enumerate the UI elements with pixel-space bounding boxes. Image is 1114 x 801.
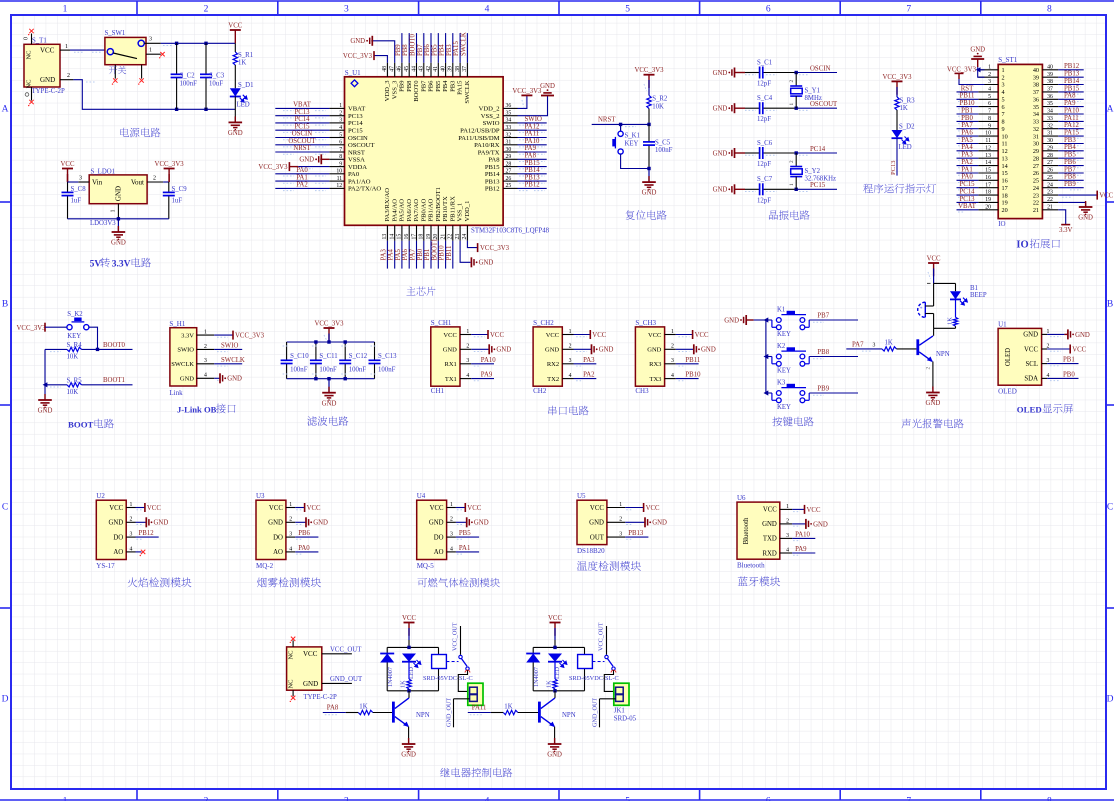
svg-text:4: 4 — [786, 547, 789, 553]
power VCC_3V3 at U1 VDDA pin 9 — [258, 162, 329, 171]
svg-text:4: 4 — [569, 373, 572, 379]
svg-text:J-Link OB: J-Link OB — [177, 404, 217, 414]
svg-text:S_Y2: S_Y2 — [805, 168, 821, 175]
svg-text:PA6/AO: PA6/AO — [406, 199, 413, 222]
svg-text:PB7: PB7 — [417, 44, 424, 56]
svg-text:NPN: NPN — [936, 351, 950, 358]
svg-text:PA4: PA4 — [961, 144, 973, 151]
ground GND at ST1 pins 1-2 — [970, 46, 985, 77]
svg-text:3: 3 — [339, 118, 342, 124]
capacitor S_C3 10uF — [200, 43, 225, 109]
svg-text:CH1: CH1 — [431, 387, 445, 395]
svg-text:PA1: PA1 — [296, 174, 307, 181]
svg-text:29: 29 — [1047, 145, 1053, 151]
svg-text:S_C9: S_C9 — [172, 186, 188, 193]
wire and net label PA0 at U1 pin 10 — [275, 167, 329, 176]
svg-text:27: 27 — [1033, 163, 1039, 170]
module U6 Bluetooth — [737, 494, 792, 569]
ground GND relay driver 1 — [401, 738, 416, 759]
svg-text:4: 4 — [485, 5, 490, 15]
svg-text:VBAT: VBAT — [293, 102, 312, 109]
svg-text:SDA: SDA — [1024, 376, 1038, 383]
svg-text:PB12: PB12 — [1064, 63, 1080, 70]
ground GND at U1 VSS_1 pin 23 — [460, 241, 493, 267]
svg-text:U1: U1 — [998, 320, 1007, 328]
svg-text:NC: NC — [26, 50, 33, 59]
svg-text:2: 2 — [786, 518, 789, 524]
svg-text:40: 40 — [1047, 64, 1053, 70]
wire and net label PC14 at ST1 pin 18 — [957, 189, 979, 198]
ground GND at CH1 pin 2 — [471, 344, 511, 354]
capacitor S_C13 100nF — [369, 342, 398, 379]
junction relay VCC node 2 — [553, 646, 556, 649]
svg-text:LED: LED — [237, 101, 250, 108]
relay contact 2 — [592, 622, 615, 691]
svg-text:GND: GND — [926, 400, 941, 407]
svg-text:S_CH1: S_CH1 — [431, 319, 452, 327]
svg-text:PB9: PB9 — [1064, 181, 1076, 188]
display U1 OLED — [998, 320, 1049, 395]
wire and net label BOOT0 at U1 pin 44 — [410, 33, 417, 63]
wire and net label PB0 at U1 pin 18 — [417, 241, 424, 269]
svg-text:35: 35 — [1047, 101, 1053, 107]
power port VCC_3V3 filter — [314, 321, 344, 343]
svg-text:KEY: KEY — [777, 368, 791, 375]
svg-text:GND: GND — [599, 347, 614, 354]
wire and net label PA3 at ST1 pin 13 — [957, 152, 979, 161]
svg-text:VCC: VCC — [109, 505, 123, 512]
svg-text:PA0: PA0 — [348, 171, 360, 178]
svg-text:S_T1: S_T1 — [32, 38, 47, 45]
svg-text:2: 2 — [204, 344, 207, 350]
ground GND LDO — [111, 219, 126, 247]
wire and net label PA7 base — [846, 341, 882, 351]
svg-text:1K: 1K — [359, 703, 367, 710]
wire and net label PB11 at CH3 pin 3 — [676, 357, 700, 366]
svg-text:1: 1 — [450, 502, 453, 508]
svg-text:3: 3 — [671, 358, 674, 364]
svg-text:GND: GND — [313, 520, 328, 527]
svg-text:SWCLK: SWCLK — [464, 80, 471, 103]
svg-text:GND: GND — [180, 376, 194, 383]
svg-text:25: 25 — [506, 183, 512, 189]
svg-text:PA9: PA9 — [1064, 100, 1076, 107]
svg-text:VCC: VCC — [228, 23, 242, 30]
ground GND at U1 VSSA pin 8 — [299, 154, 329, 164]
svg-text:28: 28 — [506, 161, 512, 167]
capacitor S_C6 12pF — [745, 140, 796, 168]
svg-text:VCC: VCC — [269, 505, 283, 512]
capacitor S_C1 12pF — [745, 59, 796, 87]
svg-text:S_R5: S_R5 — [67, 377, 83, 384]
svg-text:PA11: PA11 — [525, 131, 540, 138]
svg-text:1: 1 — [619, 502, 622, 508]
svg-text:VCC: VCC — [40, 47, 55, 55]
ground GND reset — [642, 169, 657, 197]
svg-text:1: 1 — [63, 797, 68, 801]
svg-text:PB7: PB7 — [420, 80, 427, 92]
svg-text:PB13: PB13 — [485, 178, 500, 185]
junction relay collector node 2 — [553, 689, 556, 692]
power VCC at U6 pin 1 — [792, 505, 821, 514]
wire relay coil loop 2 — [533, 647, 584, 690]
wire and net label PB8 at U1 pin 45 — [402, 33, 409, 63]
svg-text:40: 40 — [440, 66, 446, 72]
svg-text:PB8: PB8 — [402, 44, 409, 56]
svg-text:5: 5 — [988, 94, 991, 100]
connector S_CH2 serial port — [533, 319, 573, 395]
svg-text:GND: GND — [401, 752, 416, 759]
svg-text:1: 1 — [789, 103, 795, 106]
wire and net label PB9 at ST1 pin 24 — [1058, 181, 1083, 190]
svg-text:28: 28 — [1033, 155, 1039, 162]
svg-text:7: 7 — [988, 109, 991, 115]
svg-text:PA10: PA10 — [525, 138, 540, 145]
svg-text:VCC: VCC — [646, 505, 660, 512]
wire and net label PA15 at ST1 pin 31 — [1058, 130, 1083, 139]
svg-text:PA1: PA1 — [961, 166, 972, 173]
svg-text:12pF: 12pF — [757, 81, 771, 88]
svg-text:PB10: PB10 — [685, 372, 701, 379]
svg-text:PB1: PB1 — [1063, 357, 1075, 364]
svg-text:3: 3 — [619, 532, 622, 538]
svg-text:NC: NC — [288, 650, 295, 659]
junction keys bus K2 — [764, 354, 769, 359]
svg-text:47: 47 — [390, 66, 396, 72]
ground GND at U1 VSS_2 pin 35 — [518, 83, 555, 116]
svg-text:OSCIN: OSCIN — [292, 131, 312, 138]
svg-text:PB13: PB13 — [1064, 71, 1080, 78]
svg-text:VCC_3V3: VCC_3V3 — [258, 164, 288, 171]
junction filter bottom bus x=345 — [344, 377, 347, 380]
svg-text:GND: GND — [443, 347, 457, 354]
svg-text:VSS_3: VSS_3 — [391, 80, 398, 99]
svg-text:3: 3 — [988, 79, 991, 85]
title 晶振电路 — [769, 210, 810, 220]
svg-text:1: 1 — [569, 329, 572, 335]
capacitor S_C10 100nF — [281, 342, 310, 379]
resistor S_R2 10K — [647, 95, 668, 124]
svg-text:15: 15 — [1002, 170, 1008, 177]
svg-text:OSCIN: OSCIN — [810, 65, 830, 72]
svg-text:PB0: PB0 — [961, 115, 973, 122]
svg-text:PA5: PA5 — [395, 248, 402, 260]
title J-Link OB接口 — [177, 404, 236, 415]
svg-text:GND: GND — [762, 521, 777, 528]
ground GND at CH2 pin 2 — [574, 344, 614, 354]
svg-text:VSS_1: VSS_1 — [457, 203, 464, 222]
ground GND at OLED pin 1 — [1047, 329, 1090, 339]
svg-text:BOOT0: BOOT0 — [410, 33, 417, 56]
svg-text:32: 32 — [1033, 126, 1039, 133]
svg-text:PB1/AO: PB1/AO — [428, 199, 435, 222]
svg-text:PB3: PB3 — [1064, 137, 1076, 144]
svg-text:1K: 1K — [885, 340, 893, 347]
wire and net label PA1 at ST1 pin 15 — [957, 166, 979, 175]
relay contact 1 — [446, 622, 470, 691]
svg-text:PA7: PA7 — [852, 341, 864, 348]
wire and net label PA8 base — [323, 704, 346, 714]
svg-text:AO: AO — [434, 549, 444, 556]
svg-text:PB6: PB6 — [424, 44, 431, 56]
svg-text:PB0: PB0 — [1063, 371, 1075, 378]
svg-text:Bluetooth: Bluetooth — [743, 517, 750, 544]
junction crystal OSCOUT — [795, 107, 798, 110]
screw terminal connector 2 — [600, 683, 630, 705]
svg-text:1K: 1K — [900, 105, 908, 112]
svg-text:GND: GND — [115, 186, 123, 201]
svg-text:0: 0 — [24, 37, 30, 40]
wire and net label PB0 at ST1 pin 8 — [957, 115, 979, 124]
svg-text:PA6: PA6 — [961, 130, 973, 137]
svg-text:5: 5 — [339, 132, 342, 138]
power VCC at U3 pin 1 — [295, 503, 321, 512]
no-ERC marker on S_T1 bottom pin — [28, 100, 34, 107]
svg-text:IO: IO — [1016, 240, 1028, 251]
svg-text:PA3: PA3 — [961, 152, 973, 159]
wire and net label PB1 at U1 pin 19 — [424, 241, 431, 269]
title 温度检测模块 — [577, 561, 641, 571]
svg-text:VCC_3V3: VCC_3V3 — [17, 325, 47, 332]
svg-text:PB12: PB12 — [139, 530, 155, 537]
relay coil SRD-05VDC-SL-C 1 — [423, 655, 473, 683]
wire and net label PA2 at U1 pin 12 — [275, 182, 329, 191]
svg-text:PB13: PB13 — [628, 530, 644, 537]
svg-text:20: 20 — [985, 204, 991, 210]
svg-text:36: 36 — [1047, 94, 1053, 100]
wire and net label SWIO at U1 pin 34 — [518, 116, 547, 125]
svg-text:SWIO: SWIO — [525, 116, 542, 123]
svg-text:VCC_OUT: VCC_OUT — [598, 622, 605, 651]
svg-text:PB8: PB8 — [817, 349, 829, 356]
svg-text:VCC_3V3: VCC_3V3 — [343, 53, 373, 60]
wire and net label PB9 at U1 pin 46 — [395, 33, 402, 63]
junction relay VCC node 1 — [407, 646, 410, 649]
transistor NPN relay 1 — [392, 691, 430, 744]
svg-text:S_ST1: S_ST1 — [998, 56, 1018, 64]
svg-text:2: 2 — [67, 73, 70, 79]
svg-text:3: 3 — [149, 37, 152, 43]
svg-text:PA12: PA12 — [525, 123, 540, 130]
svg-text:S_K2: S_K2 — [67, 311, 83, 318]
svg-text:33: 33 — [1033, 119, 1039, 126]
module U5 DS18B20 — [577, 492, 625, 555]
svg-text:12: 12 — [1002, 148, 1008, 155]
svg-text:D: D — [2, 695, 9, 705]
wire and net label SWCLK at H1 pin 3 — [214, 357, 245, 366]
svg-text:2: 2 — [926, 367, 932, 370]
svg-text:S_C6: S_C6 — [757, 140, 773, 147]
wire and net label PA11 base — [468, 704, 491, 714]
svg-text:A: A — [2, 105, 9, 115]
wire VCC rail — [161, 43, 236, 45]
wire and net label PC14 — [796, 146, 837, 155]
svg-text:10: 10 — [336, 169, 342, 175]
junction reset ground node — [647, 167, 650, 170]
svg-text:PB13: PB13 — [525, 174, 541, 181]
svg-text:20: 20 — [1002, 207, 1008, 214]
power port VCC relay driver 2 — [548, 615, 562, 647]
wire alarm bottom rail — [934, 314, 956, 336]
svg-text:17: 17 — [411, 234, 417, 240]
svg-text:S_CH2: S_CH2 — [533, 319, 554, 327]
svg-text:2: 2 — [619, 517, 622, 523]
svg-text:PB10: PB10 — [439, 245, 446, 261]
wire and net label PA7 at ST1 pin 9 — [957, 122, 979, 131]
svg-text:GND: GND — [1075, 332, 1090, 339]
svg-text:30: 30 — [506, 147, 512, 153]
svg-text:5: 5 — [625, 797, 630, 801]
svg-text:A: A — [1107, 105, 1114, 115]
svg-text:VCC: VCC — [807, 507, 821, 514]
switch S_SW1 — [105, 30, 161, 79]
svg-text:MQ-2: MQ-2 — [256, 562, 274, 570]
svg-text:PA10: PA10 — [1064, 107, 1079, 114]
svg-text:10: 10 — [985, 131, 991, 137]
svg-text:8MHz: 8MHz — [805, 95, 822, 102]
svg-text:PA9: PA9 — [481, 372, 493, 379]
svg-text:36: 36 — [1033, 97, 1039, 104]
svg-text:3: 3 — [569, 358, 572, 364]
wire and net label PA12 at U1 pin 33 — [518, 123, 547, 132]
svg-text:1K: 1K — [546, 680, 553, 688]
svg-text:TYPE-C-2P: TYPE-C-2P — [32, 88, 65, 95]
svg-text:12: 12 — [985, 145, 991, 151]
svg-text:1: 1 — [289, 502, 292, 508]
svg-text:PB14: PB14 — [1064, 78, 1080, 85]
module U4 MQ-5 — [417, 492, 456, 570]
svg-text:PA12: PA12 — [1064, 122, 1079, 129]
svg-text:PA15: PA15 — [1064, 130, 1079, 137]
wire and net label PB0 at OLED pin 4 — [1047, 371, 1078, 380]
resistor S_R1 1K — [233, 43, 253, 88]
svg-text:17: 17 — [1002, 185, 1008, 192]
svg-text:GND: GND — [701, 347, 716, 354]
wire and net label NRST — [592, 117, 649, 127]
resistor S_R5 10K — [45, 377, 133, 396]
svg-text:PA4: PA4 — [388, 248, 395, 260]
wire and net label PC13 run LED — [890, 138, 897, 175]
wire and net label PA4 at U1 pin 14 — [388, 241, 395, 269]
svg-text:1N4007: 1N4007 — [533, 667, 540, 687]
svg-text:12: 12 — [336, 183, 342, 189]
svg-text:1: 1 — [111, 210, 117, 213]
svg-text:13: 13 — [1002, 155, 1008, 162]
power VCC_3V3 at U1 VDD_3 pin 48 — [343, 51, 387, 63]
svg-text:SWIO: SWIO — [221, 342, 238, 349]
svg-text:PA7/AO: PA7/AO — [413, 199, 420, 222]
svg-text:GND: GND — [227, 376, 242, 383]
svg-text:Vout: Vout — [131, 179, 144, 187]
svg-text:4: 4 — [671, 373, 674, 379]
svg-text:Link: Link — [169, 389, 183, 397]
svg-text:18: 18 — [1002, 192, 1008, 199]
junction BOOT bus R5 — [43, 382, 48, 387]
svg-text:1: 1 — [204, 330, 207, 336]
svg-text:KEY: KEY — [777, 331, 791, 338]
svg-text:8: 8 — [1047, 5, 1052, 15]
svg-text:34: 34 — [506, 118, 512, 124]
ground GND at U3 pin 2 — [295, 517, 328, 527]
resistor 1K relay LED 1 — [400, 679, 412, 691]
svg-text:6: 6 — [766, 5, 771, 15]
svg-text:VDD_1: VDD_1 — [464, 201, 471, 222]
svg-text:1: 1 — [149, 48, 152, 54]
svg-text:PC14: PC14 — [810, 146, 826, 153]
svg-text:19: 19 — [985, 197, 991, 203]
connector TYPE-C-2P relay power — [287, 640, 352, 701]
svg-text:S_R3: S_R3 — [900, 97, 916, 104]
svg-text:RST: RST — [961, 85, 974, 92]
svg-text:PA0: PA0 — [298, 545, 310, 552]
net 3.3V at ST1 pin 21 — [1058, 210, 1072, 234]
svg-text:3: 3 — [204, 358, 207, 364]
svg-text:AO: AO — [273, 549, 283, 556]
net label BOOT0 — [103, 342, 126, 349]
ground GND relay driver 2 — [547, 738, 562, 759]
svg-text:PA9: PA9 — [525, 145, 537, 152]
power VCC at OLED pin 2 — [1047, 345, 1087, 354]
svg-text:VCC_3V3: VCC_3V3 — [947, 66, 977, 73]
svg-text:GND: GND — [724, 317, 739, 324]
svg-text:3: 3 — [79, 175, 82, 181]
svg-text:4: 4 — [485, 797, 490, 801]
title IO拓展口 — [1016, 239, 1059, 251]
wire and net label PA12 at ST1 pin 32 — [1058, 122, 1083, 131]
svg-text:PA9: PA9 — [795, 546, 807, 553]
svg-text:S_U1: S_U1 — [345, 69, 361, 77]
svg-text:K3: K3 — [777, 380, 786, 387]
capacitor S_C7 12pF — [745, 176, 796, 204]
svg-text:PC13: PC13 — [294, 109, 310, 116]
ground GND at ST1 pin 22 — [1058, 201, 1093, 222]
svg-text:PA8: PA8 — [488, 157, 500, 164]
svg-text:LED: LED — [899, 144, 912, 151]
wire LDO Vout — [163, 181, 169, 183]
svg-text:40: 40 — [1033, 67, 1039, 74]
svg-text:VDD_2: VDD_2 — [479, 106, 500, 113]
svg-text:23: 23 — [1033, 192, 1039, 199]
wire and net label PA10 at CH1 pin 3 — [471, 357, 496, 366]
svg-text:PA15: PA15 — [453, 41, 460, 56]
wire and net label PB12 at U2 pin 3 — [136, 530, 159, 539]
svg-text:RX2: RX2 — [547, 361, 559, 368]
resistor 1K relay base 1 — [346, 703, 392, 714]
svg-text:PB5: PB5 — [435, 80, 442, 92]
svg-text:26: 26 — [1047, 168, 1053, 174]
svg-text:32.768KHz: 32.768KHz — [805, 176, 837, 183]
regulator S_LDO1 LDO3V3 — [78, 169, 163, 228]
ground GND crystal row PC15 — [713, 184, 745, 194]
svg-text:3.3V: 3.3V — [112, 260, 131, 270]
svg-text:PB4: PB4 — [442, 80, 449, 92]
svg-text:6: 6 — [339, 140, 342, 146]
svg-text:SCL: SCL — [1026, 361, 1038, 368]
svg-text:35: 35 — [1033, 104, 1039, 111]
title 复位电路 — [626, 210, 667, 220]
svg-text:K1: K1 — [777, 307, 785, 314]
svg-text:PB2/BOOT1: PB2/BOOT1 — [435, 187, 442, 221]
svg-text:GND: GND — [589, 520, 604, 527]
svg-text:S_D2: S_D2 — [899, 124, 915, 131]
wire and net label PB15 at U1 pin 28 — [518, 160, 547, 169]
svg-text:PA8: PA8 — [327, 704, 339, 711]
svg-text:4: 4 — [1002, 89, 1005, 96]
svg-text:U4: U4 — [417, 492, 426, 500]
svg-text:PA15: PA15 — [457, 80, 464, 95]
svg-text:PA0: PA0 — [296, 167, 308, 174]
junction filter top bus x=329 — [327, 340, 330, 343]
